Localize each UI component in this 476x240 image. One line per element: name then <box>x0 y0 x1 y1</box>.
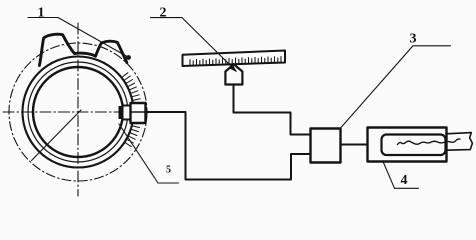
wire box3 to recorder <box>341 144 368 146</box>
rim graduation ticks <box>122 73 141 147</box>
chart paper strip <box>446 133 472 151</box>
svg-text:5: 5 <box>166 165 171 176</box>
recorder outer case <box>368 128 447 162</box>
mid rim circle <box>28 62 128 162</box>
pickup head pentagon under ruler <box>225 64 242 84</box>
leader line label 5 <box>119 124 179 183</box>
radius line lower-left <box>32 110 82 161</box>
gear wheel centerline circle (dash-dot pitch circle) <box>9 43 147 181</box>
outer rim circle <box>23 57 134 168</box>
gear wheel vertical centerline <box>77 23 79 196</box>
recorder window <box>382 135 446 156</box>
wire through sensor <box>131 111 146 113</box>
leader line label 4 <box>383 162 419 189</box>
amplifier box 3 <box>311 129 341 163</box>
ruler scale body <box>183 51 286 67</box>
leader 2 arrowhead <box>230 65 237 72</box>
leader line label 2 <box>151 18 237 71</box>
gear teeth pair <box>39 34 126 65</box>
wire sensor to junction to box3 lower input <box>146 112 311 180</box>
ruler tick marks <box>190 57 281 66</box>
svg-text:3: 3 <box>410 32 417 47</box>
leader line label 1 <box>28 18 128 58</box>
sensor stub on rim <box>123 106 131 120</box>
gear wheel horizontal centerline <box>3 111 152 113</box>
recorded wavy trace <box>398 139 461 145</box>
bore circle <box>33 67 123 157</box>
leader line label 3 <box>341 46 451 128</box>
sensor body square <box>131 103 146 123</box>
svg-text:4: 4 <box>401 173 408 188</box>
sensor contact blob on rim <box>119 106 125 119</box>
svg-text:2: 2 <box>160 6 167 21</box>
leader dot 1 <box>126 55 131 60</box>
svg-text:1: 1 <box>38 6 45 21</box>
wire pentagon to box3 upper input <box>234 85 311 135</box>
